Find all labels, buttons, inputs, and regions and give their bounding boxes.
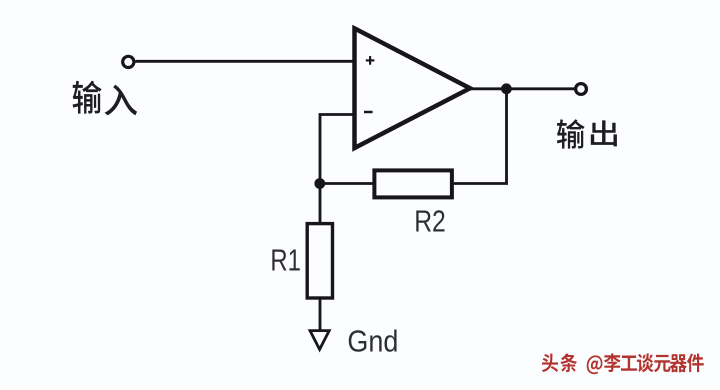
wire input [136,60,353,63]
svg-text:R1: R1 [270,243,301,278]
watermark 头条@李工谈元器件 [542,353,704,374]
node feedback junction [314,178,325,189]
wire feedback (output junction down to R2) [452,89,506,184]
node IN terminal [123,56,134,67]
node output junction [501,83,512,94]
wire feedback node to R1 [319,184,322,225]
svg-text:R2: R2 [414,204,446,239]
ground Gnd symbol [310,331,329,350]
svg-text:Gnd: Gnd [347,324,398,359]
wire R1 to ground [319,297,322,331]
op-amp U1 [355,28,471,148]
wire feedback node to R2 [320,182,374,185]
resistor R2 [374,170,452,197]
wire inverting input to feedback node [320,115,353,184]
op-amp pin − (inverting) [364,111,373,114]
node label 输出 (output) [557,119,617,148]
resistor R1 [307,224,332,298]
node label 输入 (input) [73,81,138,116]
node OUT terminal [576,84,587,95]
op-amp pin + (non-inverting) [366,56,375,65]
wire output [469,87,575,90]
